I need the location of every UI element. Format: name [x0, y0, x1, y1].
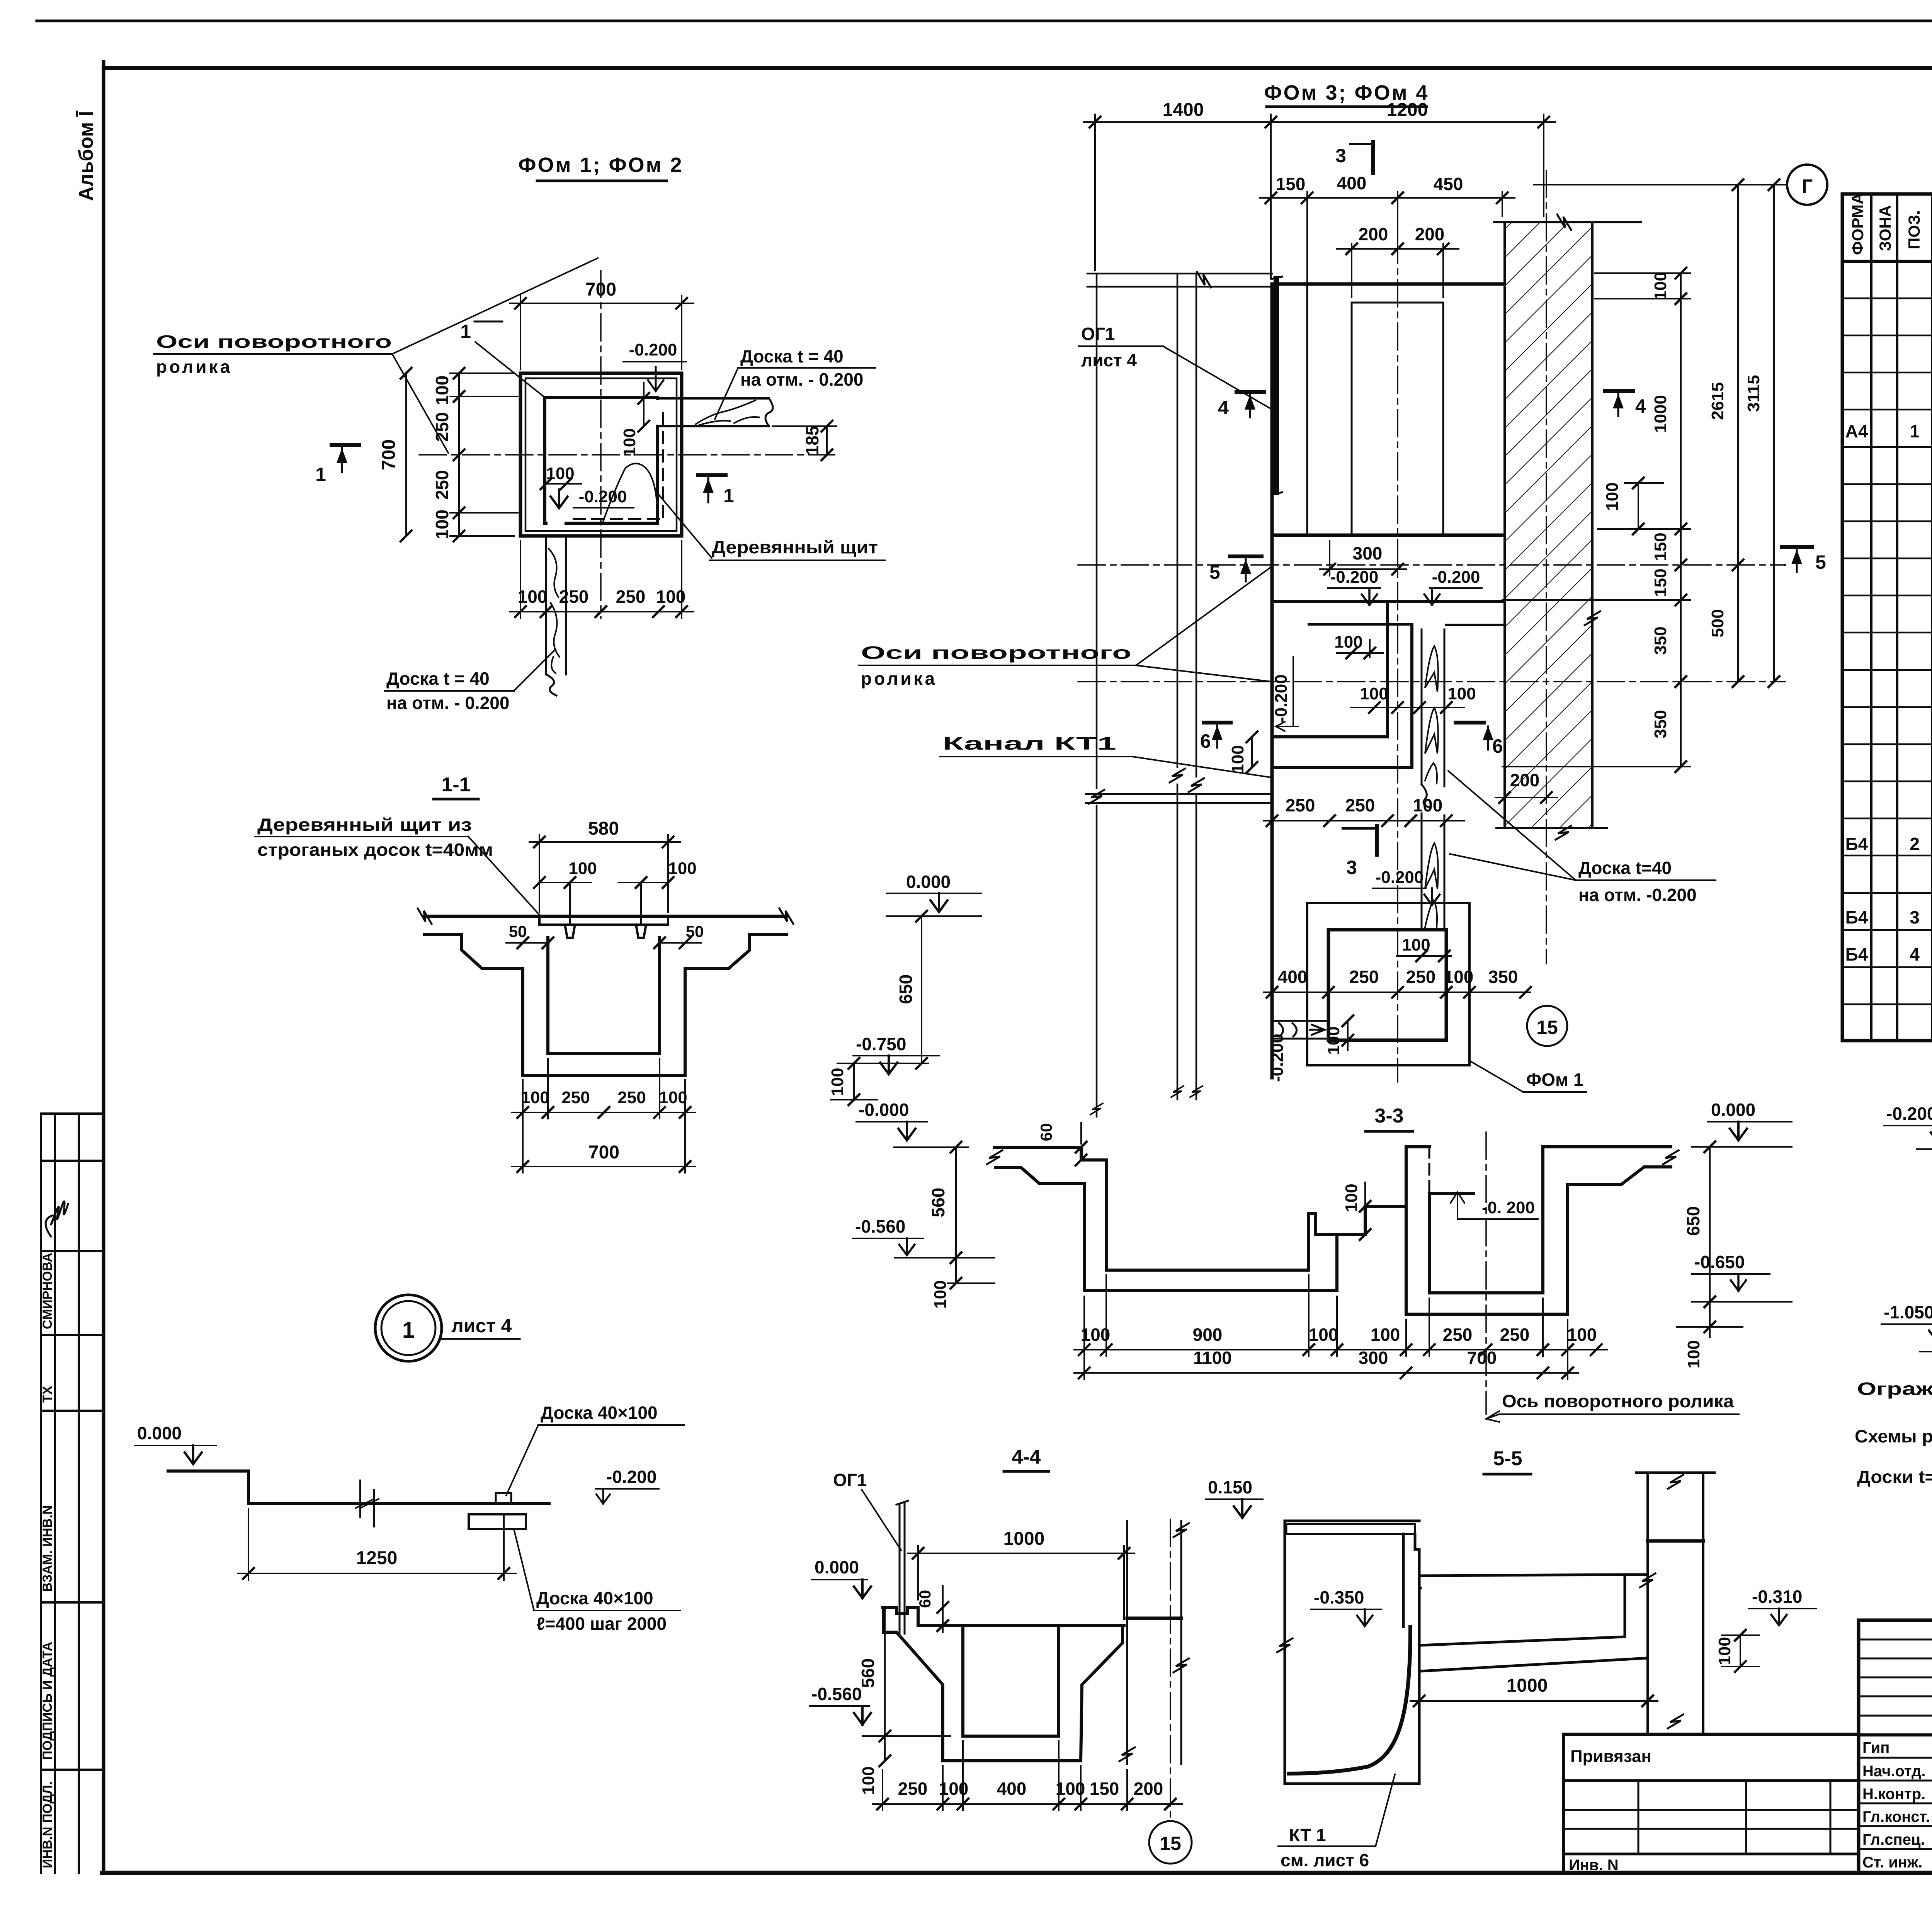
svg-text:Привязан: Привязан: [1570, 1747, 1651, 1766]
svg-text:Доска t = 40: Доска t = 40: [386, 668, 490, 689]
svg-text:100: 100: [1081, 1325, 1111, 1345]
svg-text:лист 4: лист 4: [451, 1315, 512, 1337]
svg-text:-0.000: -0.000: [859, 1100, 909, 1120]
circle 15: [1527, 1006, 1567, 1046]
svg-text:-0.560: -0.560: [855, 1216, 905, 1236]
svg-text:100: 100: [1413, 795, 1443, 815]
svg-text:Доски t=40, показанные в уз: Доски t=40, показанные в узле 1 учтены в…: [1857, 1467, 1932, 1487]
section mark 3 bottom: [1343, 827, 1377, 830]
svg-text:100: 100: [568, 859, 597, 878]
svg-text:Г: Г: [1802, 175, 1813, 197]
svg-text:1400: 1400: [1163, 100, 1204, 120]
185 dim right: [826, 426, 828, 455]
ground profile: [168, 1471, 549, 1503]
300 dim: [1320, 568, 1406, 570]
svg-text:Инв. N: Инв. N: [1569, 1857, 1619, 1874]
svg-text:см. лист 6: см. лист 6: [1281, 1850, 1369, 1870]
svg-text:100: 100: [931, 1280, 950, 1308]
top dim 1400 / 1200: [1084, 114, 1555, 278]
outer square: [520, 373, 682, 536]
svg-text:700: 700: [585, 279, 616, 300]
svg-text:100: 100: [828, 1068, 847, 1096]
svg-text:-0.350: -0.350: [1314, 1587, 1364, 1607]
plank under line: [469, 1514, 526, 1529]
1000 dim: [917, 1546, 919, 1600]
svg-text:строганых досок t=40мм: строганых досок t=40мм: [257, 840, 493, 860]
svg-text:100: 100: [1444, 967, 1474, 987]
svg-text:200: 200: [1134, 1779, 1163, 1799]
svg-text:0.000: 0.000: [906, 872, 951, 892]
svg-text:1: 1: [723, 485, 734, 507]
top dim 700: [510, 296, 694, 369]
svg-text:-1.050: -1.050: [1884, 1302, 1932, 1322]
dims 100 100: [569, 883, 571, 923]
svg-text:-0.200: -0.200: [1268, 1034, 1287, 1082]
centerline vertical: [600, 270, 602, 618]
bottom dims: [522, 1080, 524, 1173]
signature rows: [1859, 1757, 1932, 1759]
svg-text:0.000: 0.000: [137, 1423, 182, 1443]
svg-text:300: 300: [1353, 543, 1383, 563]
section marks 1-1: [332, 443, 359, 447]
svg-text:Ст. инж.: Ст. инж.: [1862, 1854, 1922, 1871]
svg-text:350: 350: [1488, 967, 1518, 987]
small plank arrow bottom left: [1274, 1021, 1328, 1039]
svg-text:Ось поворотного ролика: Ось поворотного ролика: [1502, 1391, 1734, 1411]
svg-text:ИНВ.N ПОДЛ.: ИНВ.N ПОДЛ.: [40, 1781, 55, 1868]
dim 580: [539, 835, 540, 912]
svg-text:1000: 1000: [1507, 1675, 1548, 1696]
1000 dim: [1410, 1700, 1658, 1702]
svg-text:лист 4: лист 4: [1081, 350, 1137, 370]
svg-text:200: 200: [1359, 224, 1388, 244]
svg-text:Доска 40×100: Доска 40×100: [541, 1403, 658, 1423]
svg-text:ФОРМА: ФОРМА: [1849, 193, 1867, 255]
svg-text:250: 250: [432, 470, 452, 500]
svg-text:250: 250: [432, 412, 452, 442]
svg-text:Доска t=40: Доска t=40: [1578, 858, 1672, 878]
svg-text:650: 650: [1683, 1206, 1703, 1236]
svg-text:0.150: 0.150: [1208, 1477, 1252, 1497]
svg-text:2: 2: [1910, 834, 1920, 854]
bottom dim chain: [510, 541, 694, 618]
100 dims around plank: [1350, 707, 1464, 708]
plank strip vertical with wood grain: [1422, 629, 1444, 930]
svg-text:100: 100: [521, 1088, 549, 1107]
svg-text:КТ 1: КТ 1: [1289, 1825, 1326, 1845]
svg-text:15: 15: [1536, 1017, 1558, 1038]
svg-text:250: 250: [1345, 795, 1375, 815]
hatched wall: [1505, 222, 1592, 828]
svg-text:Б4: Б4: [1845, 944, 1868, 964]
svg-text:100: 100: [1056, 1779, 1085, 1799]
G axis circle and dim line: [1787, 165, 1827, 205]
left inner dim chain 100/250/250/100: [450, 373, 518, 536]
svg-text:50: 50: [686, 922, 704, 940]
dim 150 400 450: [1260, 192, 1515, 282]
svg-text:560: 560: [928, 1188, 948, 1218]
svg-text:700: 700: [588, 1142, 619, 1163]
svg-text:100: 100: [1334, 633, 1362, 651]
svg-text:1000: 1000: [1651, 395, 1670, 433]
centerlines: [1078, 170, 1785, 1082]
svg-text:100: 100: [939, 1779, 969, 1799]
svg-text:450: 450: [1434, 174, 1463, 194]
svg-text:ЗОНА: ЗОНА: [1876, 205, 1894, 251]
svg-text:250: 250: [1443, 1325, 1473, 1345]
svg-text:1: 1: [315, 464, 326, 485]
svg-text:ОГ1: ОГ1: [1081, 324, 1115, 344]
svg-text:100: 100: [1324, 1026, 1343, 1054]
svg-text:100: 100: [1603, 482, 1622, 510]
svg-text:100: 100: [859, 1766, 878, 1794]
svg-text:Деревянный щит из: Деревянный щит из: [257, 815, 472, 835]
table outer border: [1842, 194, 1932, 1041]
svg-text:4: 4: [1218, 397, 1229, 418]
svg-text:100: 100: [1309, 1325, 1338, 1345]
560 / 100 dims: [884, 1607, 886, 1761]
svg-text:250: 250: [1286, 795, 1315, 815]
100 dim right: [1722, 1634, 1759, 1636]
svg-text:650: 650: [896, 975, 916, 1004]
sheet top edge: [37, 20, 1932, 22]
svg-text:250: 250: [1349, 967, 1379, 987]
svg-text:ФОм 1: ФОм 1: [1526, 1070, 1583, 1090]
svg-text:100: 100: [659, 1088, 687, 1107]
svg-text:-0.560: -0.560: [811, 1684, 862, 1704]
svg-text:0.000: 0.000: [815, 1557, 859, 1577]
svg-text:Б4: Б4: [1845, 907, 1868, 927]
centerline horizontal: [419, 454, 835, 456]
svg-text:700: 700: [379, 439, 399, 470]
svg-text:50: 50: [509, 922, 527, 940]
svg-text:200: 200: [1510, 770, 1540, 790]
svg-text:100: 100: [1567, 1325, 1597, 1345]
svg-text:ПОЗ.: ПОЗ.: [1905, 210, 1923, 249]
dim 250 250 100 mid: [1264, 820, 1464, 821]
svg-text:1000: 1000: [1003, 1529, 1045, 1549]
svg-text:СМИРНОВА: СМИРНОВА: [40, 1253, 55, 1329]
frame border: [102, 62, 105, 1873]
svg-text:250: 250: [1500, 1325, 1530, 1345]
right wall column: [1636, 1473, 1714, 1732]
svg-text:Доска t = 40: Доска t = 40: [740, 346, 844, 366]
svg-text:Ограждение ОГ1 учтено в спе: Ограждение ОГ1 учтено в спецификации на …: [1857, 1379, 1932, 1399]
svg-text:ТХ: ТХ: [40, 1386, 55, 1403]
svg-text:100: 100: [1342, 1184, 1361, 1212]
svg-text:150: 150: [1651, 568, 1670, 597]
svg-text:-0.200: -0.200: [1376, 868, 1424, 887]
svg-text:3115: 3115: [1744, 375, 1763, 412]
svg-text:150: 150: [1276, 174, 1306, 194]
svg-text:60: 60: [1037, 1123, 1055, 1141]
left trough outline: [995, 1147, 1406, 1291]
svg-text:ОГ1: ОГ1: [833, 1470, 867, 1490]
Привязан sub-table: [1563, 1734, 1859, 1873]
ground line: [425, 915, 786, 918]
svg-text:150: 150: [1651, 532, 1670, 561]
svg-text:ФОм 1; ФОм 2: ФОм 1; ФОм 2: [518, 153, 683, 177]
svg-text:-0.200: -0.200: [1886, 1104, 1932, 1124]
svg-text:250: 250: [1406, 967, 1436, 987]
svg-text:Доска 40×100: Доска 40×100: [536, 1588, 653, 1608]
svg-text:Н.контр.: Н.контр.: [1862, 1786, 1925, 1803]
svg-text:на отм. - 0.200: на отм. - 0.200: [386, 693, 509, 713]
svg-text:3: 3: [1335, 145, 1346, 167]
svg-text:100: 100: [656, 587, 686, 607]
svg-text:1: 1: [1910, 421, 1920, 441]
svg-text:400: 400: [1337, 173, 1367, 193]
svg-text:Оси поворотного: Оси поворотного: [861, 643, 1131, 663]
svg-text:200: 200: [1415, 224, 1445, 244]
svg-text:3-3: 3-3: [1374, 1105, 1403, 1127]
svg-text:250: 250: [898, 1779, 928, 1799]
svg-text:Альбом Ī: Альбом Ī: [75, 110, 97, 201]
right pit: [1406, 1147, 1671, 1314]
vertical column lines: [1870, 194, 1872, 1041]
svg-text:100: 100: [668, 859, 696, 878]
wavy break line in cavity: [603, 463, 657, 522]
upper thin rows (left part): [1859, 1639, 1932, 1641]
svg-text:ПОДПИСЬ И ДАТА: ПОДПИСЬ И ДАТА: [40, 1642, 55, 1760]
svg-text:100: 100: [1684, 1340, 1703, 1368]
svg-text:Гип: Гип: [1862, 1739, 1889, 1756]
svg-text:100: 100: [432, 510, 452, 539]
svg-text:Деревянный щит: Деревянный щит: [712, 537, 878, 557]
long vertical channel lines: [1087, 274, 1272, 1117]
svg-text:на отм. - 0.200: на отм. - 0.200: [740, 369, 863, 389]
svg-text:560: 560: [858, 1658, 878, 1688]
svg-text:ℓ=400 шаг 2000: ℓ=400 шаг 2000: [536, 1614, 667, 1634]
svg-text:350: 350: [1651, 710, 1670, 738]
svg-text:15: 15: [1160, 1833, 1181, 1854]
inner cavity: [545, 398, 658, 523]
svg-text:ролика: ролика: [156, 357, 232, 377]
bottom plank: [546, 536, 566, 696]
svg-text:-0.200: -0.200: [606, 1467, 656, 1487]
svg-text:1100: 1100: [1193, 1348, 1232, 1368]
svg-text:400: 400: [997, 1779, 1027, 1799]
svg-text:-0.200: -0.200: [1432, 568, 1480, 587]
right wall verticals: [1127, 1521, 1181, 1764]
inner rect: [1307, 284, 1443, 535]
svg-text:-0.650: -0.650: [1694, 1252, 1745, 1272]
svg-text:100: 100: [620, 428, 639, 456]
FOm1 square bottom: [1307, 903, 1469, 1065]
svg-text:100: 100: [1651, 272, 1670, 300]
svg-text:100: 100: [432, 376, 452, 405]
svg-text:185: 185: [802, 426, 822, 456]
svg-text:1250: 1250: [356, 1548, 398, 1568]
svg-text:5: 5: [1209, 561, 1220, 583]
fence post: [896, 1501, 908, 1634]
break in line: [355, 1480, 379, 1527]
svg-text:Схемы расположения кормушек,: Схемы расположения кормушек, каналов и ф…: [1855, 1426, 1932, 1446]
svg-text:100: 100: [1228, 745, 1247, 773]
svg-text:4: 4: [1635, 395, 1646, 417]
inner square thin: [526, 378, 677, 531]
svg-text:Оси поворотного: Оси поворотного: [156, 332, 392, 352]
100 dim near right plank: [643, 398, 645, 426]
svg-text:6: 6: [1492, 735, 1503, 757]
svg-text:700: 700: [1467, 1348, 1497, 1368]
svg-text:5-5: 5-5: [1493, 1447, 1522, 1470]
svg-text:580: 580: [588, 818, 619, 839]
svg-text:300: 300: [1359, 1348, 1388, 1368]
svg-text:3: 3: [1910, 907, 1920, 927]
svg-text:Б4: Б4: [1845, 834, 1868, 854]
svg-text:Канал КТ1: Канал КТ1: [942, 733, 1116, 753]
row lines (left region): [1842, 298, 1932, 1004]
svg-text:Гл.конст.: Гл.конст.: [1862, 1808, 1930, 1825]
left channel box: [1285, 1521, 1419, 1784]
svg-text:2615: 2615: [1708, 382, 1727, 420]
right dim chains: [1595, 185, 1785, 767]
svg-text:5: 5: [1815, 551, 1826, 573]
svg-text:1-1: 1-1: [441, 774, 470, 796]
svg-text:-0.200: -0.200: [1272, 674, 1291, 723]
svg-text:ролика: ролика: [861, 668, 937, 689]
svg-text:-0.200: -0.200: [1330, 568, 1379, 587]
svg-text:Нач.отд.: Нач.отд.: [1862, 1763, 1925, 1780]
svg-text:1: 1: [402, 1318, 415, 1343]
svg-text:1200: 1200: [1387, 100, 1428, 120]
bottom dims: [872, 1741, 1182, 1810]
svg-text:350: 350: [1651, 626, 1670, 655]
svg-text:250: 250: [559, 587, 589, 607]
svg-text:150: 150: [1090, 1779, 1119, 1799]
header bottom: [1842, 260, 1932, 263]
svg-text:4-4: 4-4: [1012, 1446, 1041, 1468]
left outer 700: [405, 373, 407, 536]
svg-text:А4: А4: [1845, 421, 1868, 441]
centerline: [1485, 1132, 1487, 1414]
foundation outer: [1272, 284, 1502, 1078]
slab bottom + chamfers: [425, 935, 786, 1075]
svg-text:0.000: 0.000: [1711, 1100, 1755, 1120]
bottom dim chains: [1074, 1275, 1607, 1379]
trough outline: [883, 1607, 1124, 1761]
slabs to the right: [1419, 1575, 1648, 1671]
stamp column grid: [41, 1114, 104, 1873]
svg-text:100: 100: [518, 587, 548, 607]
hidden ledge dashed: [573, 413, 663, 519]
svg-text:900: 900: [1193, 1325, 1223, 1345]
svg-text:-0.200: -0.200: [629, 340, 677, 359]
dim 400 250 250 100 350: [1264, 992, 1530, 993]
signature rows text: [1862, 1739, 1932, 1871]
svg-text:-0.750: -0.750: [856, 1034, 906, 1054]
svg-text:-0. 200: -0. 200: [1482, 1198, 1535, 1217]
svg-text:3: 3: [1346, 857, 1357, 878]
svg-text:250: 250: [561, 1088, 590, 1107]
OG1 fence bar: [1274, 279, 1279, 492]
table content: [1845, 272, 1932, 1039]
svg-text:60: 60: [916, 1590, 934, 1608]
right plank opening through wall: [658, 397, 682, 400]
svg-text:250: 250: [617, 1088, 646, 1107]
svg-text:500: 500: [1708, 609, 1727, 637]
svg-text:400: 400: [1278, 967, 1308, 987]
svg-text:Гл.спец.: Гл.спец.: [1862, 1831, 1925, 1848]
svg-text:6: 6: [1200, 730, 1211, 752]
1250 dim: [248, 1509, 249, 1580]
trench lines through wall: [1272, 600, 1690, 767]
svg-text:на отм. -0.200: на отм. -0.200: [1578, 885, 1697, 905]
svg-text:100: 100: [1715, 1637, 1734, 1665]
svg-text:100: 100: [1371, 1325, 1400, 1345]
svg-text:4: 4: [1910, 944, 1920, 964]
dim 200 200: [1351, 243, 1352, 298]
svg-text:1: 1: [460, 321, 471, 342]
svg-text:100: 100: [1447, 684, 1476, 703]
right plank: [682, 398, 773, 426]
svg-text:-0.310: -0.310: [1752, 1587, 1802, 1607]
svg-text:ВЗАМ. ИНВ.N: ВЗАМ. ИНВ.N: [40, 1505, 55, 1592]
svg-text:250: 250: [616, 587, 646, 607]
centerline + circle 15: [1170, 1519, 1171, 1818]
svg-text:-0.200: -0.200: [579, 487, 627, 506]
board on top: [539, 916, 668, 938]
svg-text:100: 100: [1360, 684, 1388, 703]
